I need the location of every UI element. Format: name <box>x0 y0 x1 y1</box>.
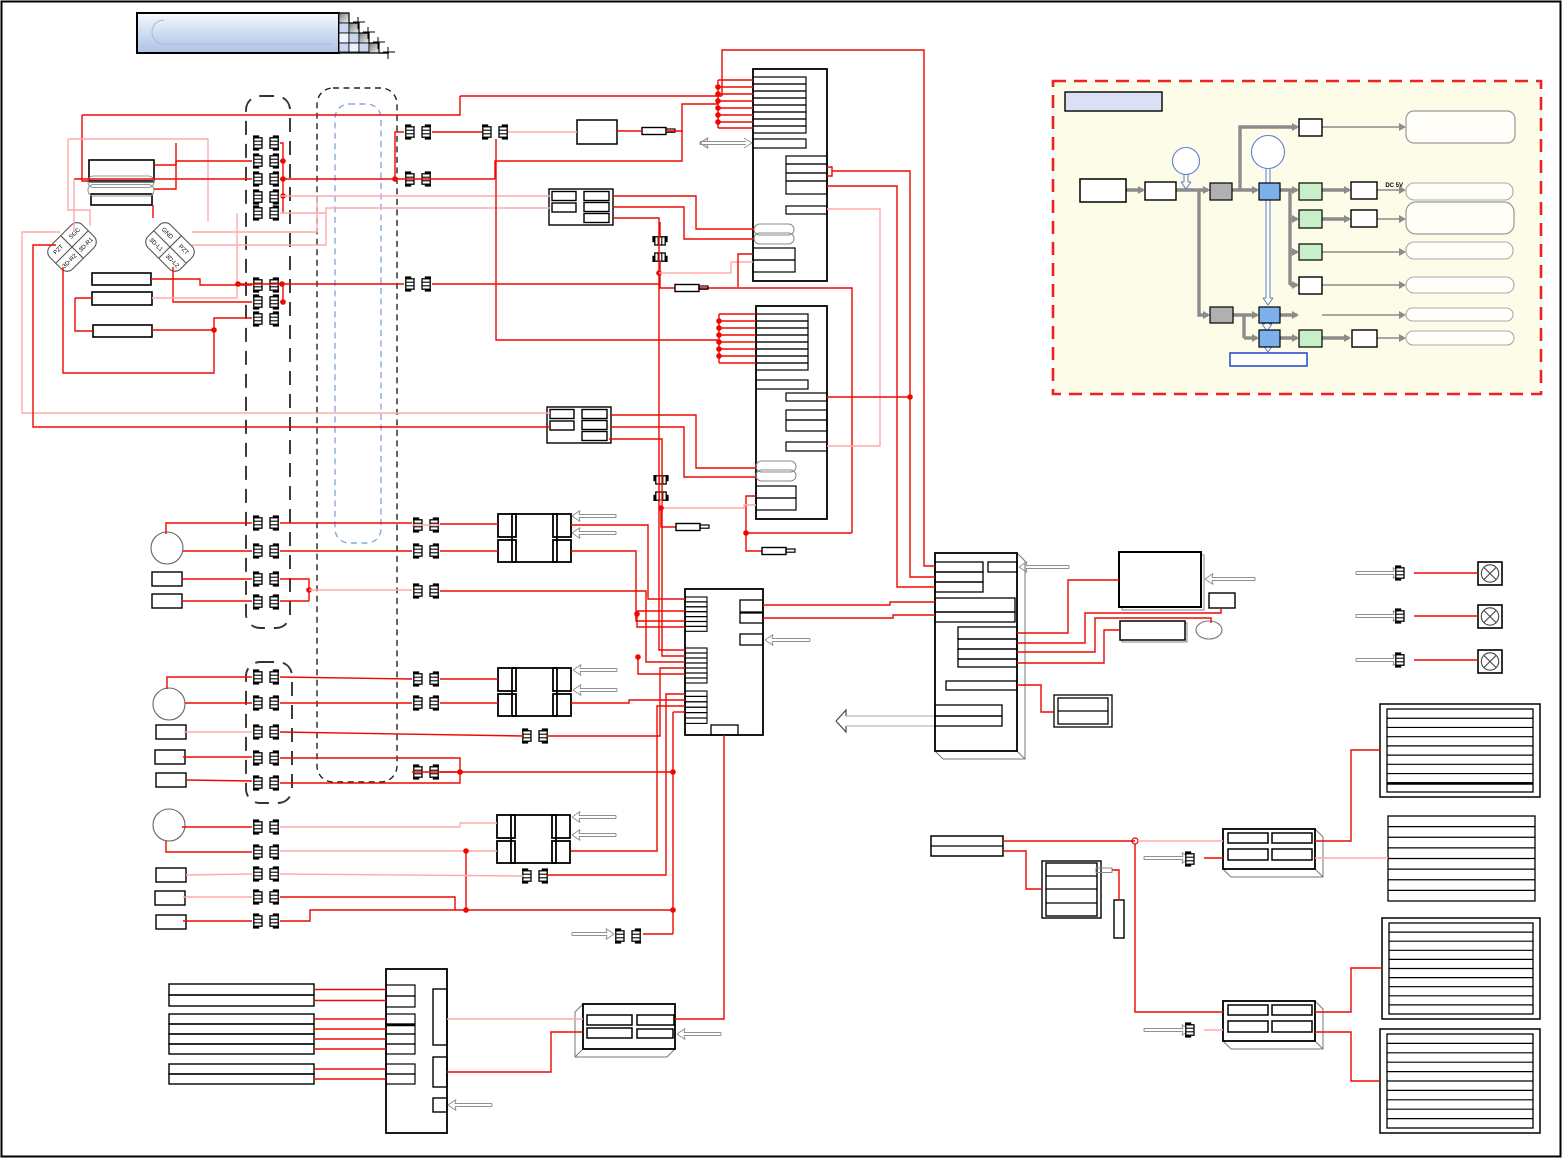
svg-text:DC 5V: DC 5V <box>1385 183 1403 189</box>
